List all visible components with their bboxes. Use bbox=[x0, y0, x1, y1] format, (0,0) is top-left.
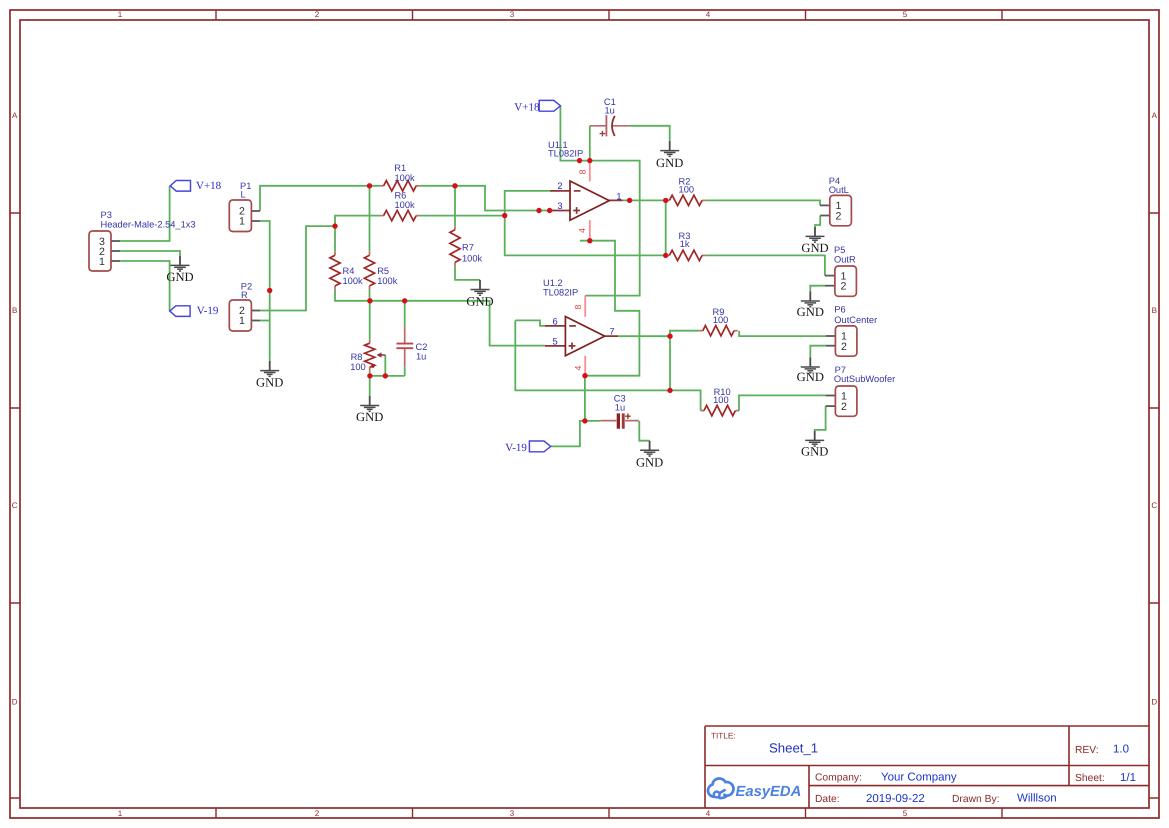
svg-text:4: 4 bbox=[577, 228, 587, 233]
wire R1 right node down to R7 top bbox=[454, 186, 456, 226]
svg-text:GND: GND bbox=[356, 410, 383, 424]
svg-text:1: 1 bbox=[239, 216, 245, 228]
svg-text:OutR: OutR bbox=[834, 255, 856, 265]
wire R1 left node down to R5 top bbox=[370, 186, 381, 252]
ground (P7) bbox=[801, 431, 828, 459]
connector P2 R bbox=[229, 282, 252, 331]
svg-text:D: D bbox=[1151, 698, 1157, 707]
svg-text:R8: R8 bbox=[351, 352, 363, 362]
junction (404.7,300.8) bbox=[402, 298, 407, 303]
svg-text:1/1: 1/1 bbox=[1120, 772, 1136, 784]
power flag V+18 (top) bbox=[514, 100, 560, 113]
wire node to R9 input bbox=[670, 331, 699, 337]
wire C3 left lead run bbox=[585, 420, 601, 422]
U1.2 power pin 4 lead bbox=[584, 356, 586, 376]
svg-text:1u: 1u bbox=[416, 351, 426, 361]
svg-text:C2: C2 bbox=[416, 342, 428, 352]
wire feedback rail to R10 input bbox=[515, 320, 700, 410]
svg-text:2: 2 bbox=[841, 401, 847, 413]
wire C3 right to ground bbox=[639, 421, 649, 441]
svg-text:R5: R5 bbox=[377, 266, 389, 276]
svg-text:1: 1 bbox=[118, 10, 123, 19]
resistor R3 1k bbox=[666, 231, 706, 261]
svg-text:Sheet:: Sheet: bbox=[1075, 773, 1105, 784]
svg-text:Your Company: Your Company bbox=[881, 772, 957, 784]
svg-text:V-19: V-19 bbox=[197, 305, 219, 317]
svg-text:Willlson: Willlson bbox=[1017, 793, 1057, 805]
junction (504.7,215.6) bbox=[502, 213, 507, 218]
wire U1.1 output pin1 to R2 bbox=[623, 199, 666, 201]
svg-text:OutL: OutL bbox=[829, 185, 849, 195]
wire node A down to R3 left bbox=[505, 216, 666, 256]
wire node to R4 top bbox=[334, 226, 336, 252]
U1.2 power pin 8 lead bbox=[584, 296, 586, 317]
svg-text:5: 5 bbox=[903, 10, 908, 19]
svg-text:GND: GND bbox=[466, 294, 493, 308]
wire P2 pin1 stub to riser bbox=[260, 320, 270, 322]
svg-text:3: 3 bbox=[510, 10, 515, 19]
svg-text:GND: GND bbox=[166, 270, 193, 284]
svg-text:A: A bbox=[12, 111, 18, 120]
wire R10 output to P7 pin1 (OutSubWoofer) bbox=[739, 395, 826, 410]
svg-text:U1.2: U1.2 bbox=[543, 278, 563, 288]
wire rail down to R8 top bbox=[369, 301, 371, 340]
wire R8 bottom to ground node bbox=[369, 371, 371, 396]
svg-text:2: 2 bbox=[315, 809, 320, 818]
junction (629.6,200.4) bbox=[627, 198, 632, 203]
svg-text:P3: P3 bbox=[101, 210, 112, 220]
svg-text:2: 2 bbox=[836, 210, 842, 222]
title block bbox=[705, 726, 1149, 808]
wire C1 left lead riser bbox=[589, 126, 591, 161]
svg-text:4: 4 bbox=[573, 365, 583, 370]
wire U1.2 output pin7 node bbox=[618, 335, 670, 337]
connector P4 OutL bbox=[829, 176, 852, 226]
svg-text:5: 5 bbox=[553, 336, 558, 346]
svg-text:100k: 100k bbox=[462, 253, 483, 263]
svg-text:1u: 1u bbox=[605, 105, 615, 115]
power flag V-19 (bottom) bbox=[505, 441, 550, 454]
svg-text:R1: R1 bbox=[394, 163, 406, 173]
svg-text:100k: 100k bbox=[395, 173, 416, 183]
svg-text:GND: GND bbox=[636, 456, 663, 470]
svg-text:3: 3 bbox=[510, 809, 515, 818]
junction (665.7,200.4) bbox=[663, 198, 668, 203]
wire C1 right to ground bbox=[629, 126, 670, 141]
junction (385.3,375.9) bbox=[383, 373, 388, 378]
junction (369.9,300.8) bbox=[367, 298, 372, 303]
resistor R1 100k bbox=[380, 163, 420, 191]
wire P7 pin2 to ground bbox=[815, 406, 826, 431]
svg-text:OutCenter: OutCenter bbox=[834, 315, 877, 325]
svg-text:1: 1 bbox=[239, 315, 245, 327]
svg-text:4: 4 bbox=[706, 809, 711, 818]
svg-text:100: 100 bbox=[713, 395, 729, 405]
svg-text:1k: 1k bbox=[680, 239, 690, 249]
wire R8 wiper drop bbox=[384, 355, 386, 376]
wire R8 bottom node to C2 bottom bbox=[370, 375, 405, 377]
power flag V-19 (left) bbox=[170, 305, 219, 317]
svg-text:2019-09-22: 2019-09-22 bbox=[866, 793, 925, 805]
svg-text:C: C bbox=[1151, 501, 1157, 510]
U1.2 triangle body bbox=[565, 317, 604, 356]
ground (C1) bbox=[656, 141, 683, 170]
junction (584.9,420.9) bbox=[582, 418, 587, 423]
svg-text:P5: P5 bbox=[834, 245, 845, 255]
svg-text:TITLE:: TITLE: bbox=[711, 732, 736, 741]
wire V+18 rail to U1.1 pin8 and U1.2 pin8 bbox=[560, 106, 639, 296]
wire R2 output to P4 pin1 (OutL) bbox=[706, 200, 820, 205]
svg-text:P6: P6 bbox=[834, 305, 845, 315]
svg-text:4: 4 bbox=[706, 10, 711, 19]
wire R3 output to P5 pin1 (OutR) bbox=[706, 255, 825, 275]
svg-text:100k: 100k bbox=[395, 200, 416, 210]
resistor R4 100k bbox=[330, 252, 363, 290]
potentiometer R8 100 bbox=[350, 340, 385, 372]
wire C2 top lead riser bbox=[404, 301, 406, 327]
svg-text:3: 3 bbox=[557, 201, 562, 211]
wire P1 pin1 / P2 pin1 ground riser bbox=[260, 221, 270, 361]
svg-text:1: 1 bbox=[118, 809, 123, 818]
resistor R6 100k bbox=[380, 190, 420, 220]
svg-text:8: 8 bbox=[578, 169, 588, 174]
wire P3 pin1 to V-19 bbox=[120, 261, 170, 311]
svg-text:100k: 100k bbox=[343, 276, 364, 286]
svg-text:GND: GND bbox=[801, 241, 828, 255]
ground (R8/C2) bbox=[356, 396, 383, 424]
ground (P1/P2) bbox=[256, 361, 283, 389]
capacitor C1 1u polarized bbox=[590, 97, 629, 136]
U1.2 input/output pin leads bbox=[545, 326, 618, 346]
wire U1.1 pin4 to U1.2 pin4 (V-) bbox=[580, 241, 640, 376]
svg-text:2: 2 bbox=[841, 281, 847, 293]
junction (335,226.1) bbox=[332, 223, 337, 228]
U1.1 power pin 8 lead bbox=[589, 161, 591, 182]
wire U1.2 pin6 feedback jog bbox=[515, 320, 545, 326]
junction (589.8,160.6) bbox=[587, 158, 592, 163]
svg-text:R4: R4 bbox=[343, 266, 355, 276]
svg-text:GND: GND bbox=[256, 375, 283, 389]
svg-text:Company:: Company: bbox=[815, 773, 862, 784]
capacitor C3 1u polarized bbox=[601, 393, 639, 428]
wire R9 output to P6 pin1 (OutCenter) bbox=[739, 331, 826, 336]
svg-text:Drawn By:: Drawn By: bbox=[952, 794, 1000, 805]
junction (369.5,185.8) bbox=[367, 183, 372, 188]
svg-text:R: R bbox=[241, 290, 248, 300]
junction (665.7,255.4) bbox=[663, 253, 668, 258]
svg-text:2: 2 bbox=[557, 181, 562, 191]
junction (589.8,240.7) bbox=[587, 238, 592, 243]
junction (539,210.5) bbox=[536, 208, 541, 213]
resistor R10 100 bbox=[701, 387, 739, 416]
svg-text:V+18: V+18 bbox=[196, 180, 222, 192]
svg-text:OutSubWoofer: OutSubWoofer bbox=[834, 374, 895, 384]
ground (P4) bbox=[801, 227, 828, 255]
svg-text:1.0: 1.0 bbox=[1113, 744, 1129, 756]
svg-text:TL082IP: TL082IP bbox=[548, 149, 583, 159]
connector P6 OutCenter bbox=[834, 305, 877, 356]
junction (579.5,160.6) bbox=[577, 158, 582, 163]
wire R7 bottom to ground bbox=[455, 266, 480, 280]
svg-text:2: 2 bbox=[841, 341, 847, 353]
svg-text:Sheet_1: Sheet_1 bbox=[769, 741, 818, 756]
ground (P6) bbox=[797, 357, 824, 384]
ground (R7) bbox=[466, 280, 493, 309]
wire V-19 flag to C3 node bbox=[551, 421, 585, 447]
svg-text:100: 100 bbox=[350, 362, 366, 372]
junction (369.9,375.9) bbox=[367, 373, 372, 378]
junction (585,375.7) bbox=[582, 373, 587, 378]
wire node A riser to U1.1 pin2 bbox=[505, 191, 550, 216]
svg-text:V-19: V-19 bbox=[505, 442, 527, 454]
wire P1 pin2 to R1 input (L) bbox=[260, 186, 370, 211]
svg-text:100: 100 bbox=[713, 315, 729, 325]
U1.1 power pin 4 lead bbox=[589, 220, 591, 241]
wire P3 pin2 to ground bbox=[120, 251, 180, 256]
wire R6 output to node A bbox=[420, 215, 505, 217]
ground (C3) bbox=[636, 441, 663, 470]
svg-text:1: 1 bbox=[99, 256, 105, 268]
U1.1 triangle body bbox=[570, 181, 609, 220]
resistor R5 100k bbox=[364, 252, 397, 290]
resistor R2 100 bbox=[666, 177, 706, 206]
wire P4 pin2 to ground bbox=[815, 216, 820, 227]
svg-text:D: D bbox=[12, 698, 18, 707]
svg-text:Date:: Date: bbox=[815, 794, 840, 805]
svg-text:B: B bbox=[12, 306, 17, 315]
svg-text:B: B bbox=[1152, 306, 1157, 315]
wire R4 bottom rail to U1.2 pin5 bbox=[335, 290, 545, 346]
svg-text:100k: 100k bbox=[377, 276, 398, 286]
connector P3 Header-Male-2.54_1x3 bbox=[89, 210, 196, 271]
op-amp U1.2 TL082IP bbox=[543, 278, 618, 376]
svg-text:GND: GND bbox=[656, 156, 683, 170]
EasyEDA logo bbox=[708, 778, 734, 798]
resistor R7 100k bbox=[450, 226, 483, 266]
wire P6 pin2 to ground bbox=[810, 346, 826, 358]
ground (P3 pin2) bbox=[166, 256, 193, 284]
wire V+18 to P3 pin3 bbox=[120, 186, 170, 241]
svg-text:100: 100 bbox=[679, 185, 695, 195]
ground (P5) bbox=[797, 291, 824, 319]
capacitor C2 1u bbox=[396, 326, 427, 366]
wire C2 bottom lead riser bbox=[404, 366, 406, 376]
power flag V+18 (left) bbox=[170, 180, 221, 192]
svg-text:8: 8 bbox=[573, 304, 583, 309]
connector P1 L bbox=[229, 181, 251, 231]
svg-text:1u: 1u bbox=[615, 403, 625, 413]
wire R2-R3 input tie bbox=[665, 200, 667, 255]
svg-text:V+18: V+18 bbox=[514, 102, 540, 114]
connector P7 OutSubWoofer bbox=[834, 365, 895, 416]
svg-text:REV:: REV: bbox=[1075, 745, 1099, 756]
junction (670,390.4) bbox=[667, 388, 672, 393]
svg-text:2: 2 bbox=[315, 10, 320, 19]
wire R4 top node to R6 left bbox=[335, 216, 380, 227]
wire R1 output to U1.1 pin3 bbox=[420, 186, 550, 211]
wire R5 bottom to rail bbox=[369, 290, 371, 301]
wire P2 pin2 to R4/R6 node (R) bbox=[260, 226, 335, 310]
wire P5 pin2 to ground bbox=[810, 286, 825, 292]
svg-text:Header-Male-2.54_1x3: Header-Male-2.54_1x3 bbox=[101, 220, 196, 230]
svg-text:7: 7 bbox=[609, 327, 614, 337]
op-amp U1.1 TL082IP bbox=[548, 140, 623, 241]
resistor R9 100 bbox=[699, 307, 737, 336]
wire V- node to C3 left bbox=[584, 376, 586, 421]
svg-text:1: 1 bbox=[616, 192, 621, 202]
connector P5 OutR bbox=[834, 245, 856, 296]
svg-text:5: 5 bbox=[903, 809, 908, 818]
junction (269.7,290.5) bbox=[267, 288, 272, 293]
junction (455,185.8) bbox=[452, 183, 457, 188]
junction (549.6,210.5) bbox=[547, 208, 552, 213]
wire output node down to feedback rail bbox=[669, 336, 671, 390]
junction (670,336.2) bbox=[667, 334, 672, 339]
svg-text:6: 6 bbox=[553, 316, 558, 326]
svg-text:L: L bbox=[241, 190, 246, 200]
U1.1 input/output pin leads bbox=[550, 191, 623, 211]
svg-text:R7: R7 bbox=[462, 242, 474, 252]
svg-text:GND: GND bbox=[797, 305, 824, 319]
svg-text:C: C bbox=[12, 501, 18, 510]
svg-text:GND: GND bbox=[797, 370, 824, 384]
svg-text:TL082IP: TL082IP bbox=[543, 288, 578, 298]
svg-text:A: A bbox=[1152, 111, 1158, 120]
svg-text:GND: GND bbox=[801, 445, 828, 459]
connector pin stubs bbox=[111, 205, 835, 406]
svg-text:EasyEDA: EasyEDA bbox=[736, 784, 802, 800]
